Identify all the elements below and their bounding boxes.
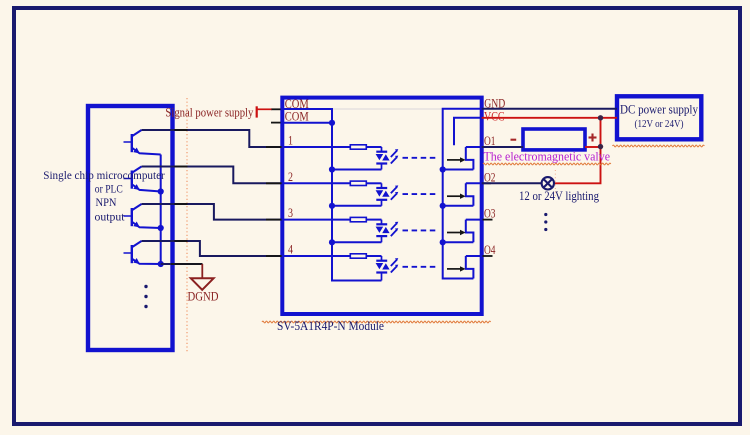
svg-text:(12V or 24V): (12V or 24V): [635, 119, 684, 130]
svg-text:NPN: NPN: [96, 195, 117, 209]
svg-text:DC power supply: DC power supply: [620, 102, 698, 117]
svg-text:1: 1: [288, 134, 293, 148]
svg-text:DGND: DGND: [188, 290, 219, 304]
svg-text:O1: O1: [484, 134, 496, 148]
svg-text:O3: O3: [484, 207, 496, 221]
svg-text:Signal power supply: Signal power supply: [165, 105, 254, 119]
svg-text:GND: GND: [484, 97, 505, 111]
svg-text:VCC: VCC: [484, 110, 505, 124]
svg-text:COM: COM: [285, 110, 309, 124]
svg-text:12 or 24V lighting: 12 or 24V lighting: [519, 189, 600, 203]
svg-text:output: output: [95, 210, 126, 224]
svg-text:or PLC: or PLC: [95, 182, 123, 196]
svg-text:The electromagnetic valve: The electromagnetic valve: [484, 149, 611, 164]
svg-text:O4: O4: [484, 243, 496, 257]
svg-text:O2: O2: [484, 170, 496, 184]
svg-text:4: 4: [288, 243, 294, 257]
svg-text:3: 3: [288, 206, 293, 220]
svg-text:SV-5A1R4P-N Module: SV-5A1R4P-N Module: [277, 318, 384, 333]
svg-text:2: 2: [288, 170, 293, 184]
svg-text:Single chip microcomputer: Single chip microcomputer: [43, 168, 165, 182]
